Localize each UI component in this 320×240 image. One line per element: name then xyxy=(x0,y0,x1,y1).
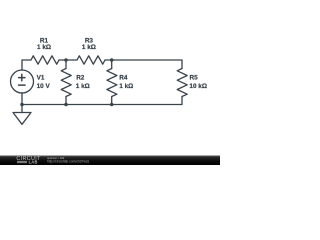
resistor R2 xyxy=(61,60,71,105)
wire R5 bottom to bottom rail xyxy=(112,97,182,105)
ground node dot xyxy=(20,103,24,107)
wire R3 to node B xyxy=(105,59,112,61)
voltage source V1 xyxy=(11,70,34,105)
node A bottom dot xyxy=(64,103,68,107)
wire top-left corner V1 to R1 xyxy=(22,60,31,70)
svg-text:R2: R2 xyxy=(76,74,85,81)
wire top rail node B to R5 xyxy=(112,60,182,69)
wire bottom rail node A to ground node xyxy=(22,104,66,106)
svg-text:LAB: LAB xyxy=(29,159,38,164)
wire bottom rail node B to node A xyxy=(66,104,112,106)
svg-text:1 kΩ: 1 kΩ xyxy=(37,44,51,51)
node A dot xyxy=(64,58,68,62)
svg-text:1 kΩ: 1 kΩ xyxy=(76,83,90,90)
resistor R5 xyxy=(177,69,187,97)
node B bottom dot xyxy=(110,103,114,107)
svg-text:R4: R4 xyxy=(119,74,128,81)
watermark bar xyxy=(0,156,220,166)
ground xyxy=(13,105,31,125)
resistor R4 xyxy=(107,60,117,105)
wire R1 to node A xyxy=(59,59,66,61)
svg-text:10 kΩ: 10 kΩ xyxy=(189,83,207,90)
svg-text:http://circuitlab.com/ch37wss: http://circuitlab.com/ch37wss xyxy=(47,159,89,163)
svg-text:1 kΩ: 1 kΩ xyxy=(82,44,96,51)
svg-text:10 V: 10 V xyxy=(37,83,51,90)
resistor R3 xyxy=(77,56,105,64)
resistor R1 xyxy=(31,56,59,64)
svg-text:1 kΩ: 1 kΩ xyxy=(119,83,133,90)
svg-text:V1: V1 xyxy=(37,74,45,81)
wire node A to R3 xyxy=(66,59,77,61)
svg-text:R5: R5 xyxy=(190,74,199,81)
CircuitLab logo xyxy=(16,156,41,165)
node B dot xyxy=(110,58,114,62)
